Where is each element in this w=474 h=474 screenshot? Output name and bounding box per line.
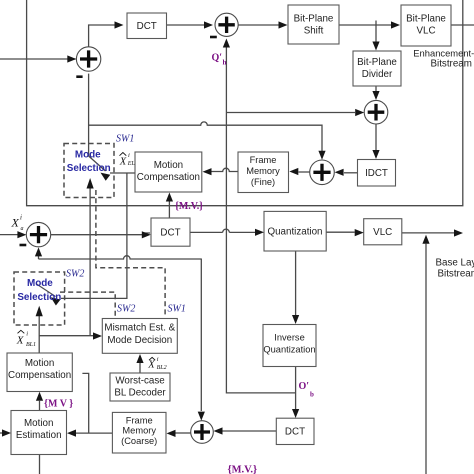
svg-text:Bitstream: Bitstream xyxy=(438,269,474,280)
svg-text:Motion: Motion xyxy=(25,358,54,369)
svg-text:{M.V.}: {M.V.} xyxy=(228,465,258,474)
svg-text:BL Decoder: BL Decoder xyxy=(114,388,166,399)
svg-text:Selection: Selection xyxy=(67,163,111,174)
svg-text:Motion: Motion xyxy=(154,160,183,171)
svg-text:Quantization: Quantization xyxy=(267,227,322,238)
svg-text:{M.V.}: {M.V.} xyxy=(175,201,203,212)
svg-text:Worst-case: Worst-case xyxy=(115,376,165,387)
svg-text:Frame: Frame xyxy=(250,155,277,165)
svg-text:DCT: DCT xyxy=(137,21,157,32)
svg-text:Motion: Motion xyxy=(24,418,53,429)
svg-text:DCT: DCT xyxy=(285,427,305,438)
svg-text:Compensation: Compensation xyxy=(137,172,200,183)
svg-text:h: h xyxy=(223,59,227,67)
svg-text:Estimation: Estimation xyxy=(16,430,62,441)
svg-text:i: i xyxy=(157,356,159,363)
svg-text:Quantization: Quantization xyxy=(263,345,315,355)
svg-text:Base Layer: Base Layer xyxy=(436,258,474,269)
svg-text:Bit-Plane: Bit-Plane xyxy=(406,14,446,25)
svg-text:Bit-Plane: Bit-Plane xyxy=(357,57,397,68)
svg-text:Frame: Frame xyxy=(126,416,153,426)
svg-text:i: i xyxy=(128,152,130,159)
svg-text:Shift: Shift xyxy=(304,26,324,37)
svg-text:X: X xyxy=(11,216,20,230)
svg-text:SW2: SW2 xyxy=(66,269,84,280)
svg-text:b: b xyxy=(310,391,314,399)
svg-text:Mode: Mode xyxy=(27,278,53,289)
svg-text:{M V }: {M V } xyxy=(44,399,73,410)
svg-text:(Coarse): (Coarse) xyxy=(121,436,157,446)
svg-text:X: X xyxy=(147,359,155,370)
svg-text:Enhancement-Layer: Enhancement-Layer xyxy=(413,48,474,59)
svg-text:Divider: Divider xyxy=(362,69,393,80)
svg-text:SW2: SW2 xyxy=(117,304,135,315)
svg-text:DCT: DCT xyxy=(160,228,180,239)
svg-text:SW1: SW1 xyxy=(116,134,134,145)
svg-text:O′: O′ xyxy=(299,381,310,392)
svg-text:BL2: BL2 xyxy=(157,365,167,371)
svg-text:i: i xyxy=(20,214,22,222)
svg-text:SW1: SW1 xyxy=(168,304,186,315)
svg-text:X: X xyxy=(119,156,127,167)
svg-text:VLC: VLC xyxy=(373,227,392,238)
svg-text:i: i xyxy=(26,330,28,337)
svg-text:Mode: Mode xyxy=(75,150,101,161)
svg-text:X: X xyxy=(16,334,25,346)
svg-text:Mismatch Est. &: Mismatch Est. & xyxy=(104,323,175,334)
svg-text:Q′: Q′ xyxy=(212,53,223,64)
svg-text:EL: EL xyxy=(127,161,136,167)
svg-text:IDCT: IDCT xyxy=(365,168,388,179)
svg-text:Mode Decision: Mode Decision xyxy=(107,335,172,346)
svg-text:Bitstream: Bitstream xyxy=(431,59,472,70)
svg-text:Bit-Plane: Bit-Plane xyxy=(294,14,334,25)
svg-text:Memory: Memory xyxy=(246,166,280,176)
svg-text:VLC: VLC xyxy=(416,26,435,37)
svg-text:a: a xyxy=(21,226,24,232)
svg-text:Selection: Selection xyxy=(17,292,61,303)
svg-text:(Fine): (Fine) xyxy=(251,177,275,187)
svg-text:BL1: BL1 xyxy=(26,342,36,348)
svg-text:Memory: Memory xyxy=(122,426,156,436)
svg-text:Inverse: Inverse xyxy=(274,333,305,343)
svg-text:Compensation: Compensation xyxy=(8,370,71,381)
